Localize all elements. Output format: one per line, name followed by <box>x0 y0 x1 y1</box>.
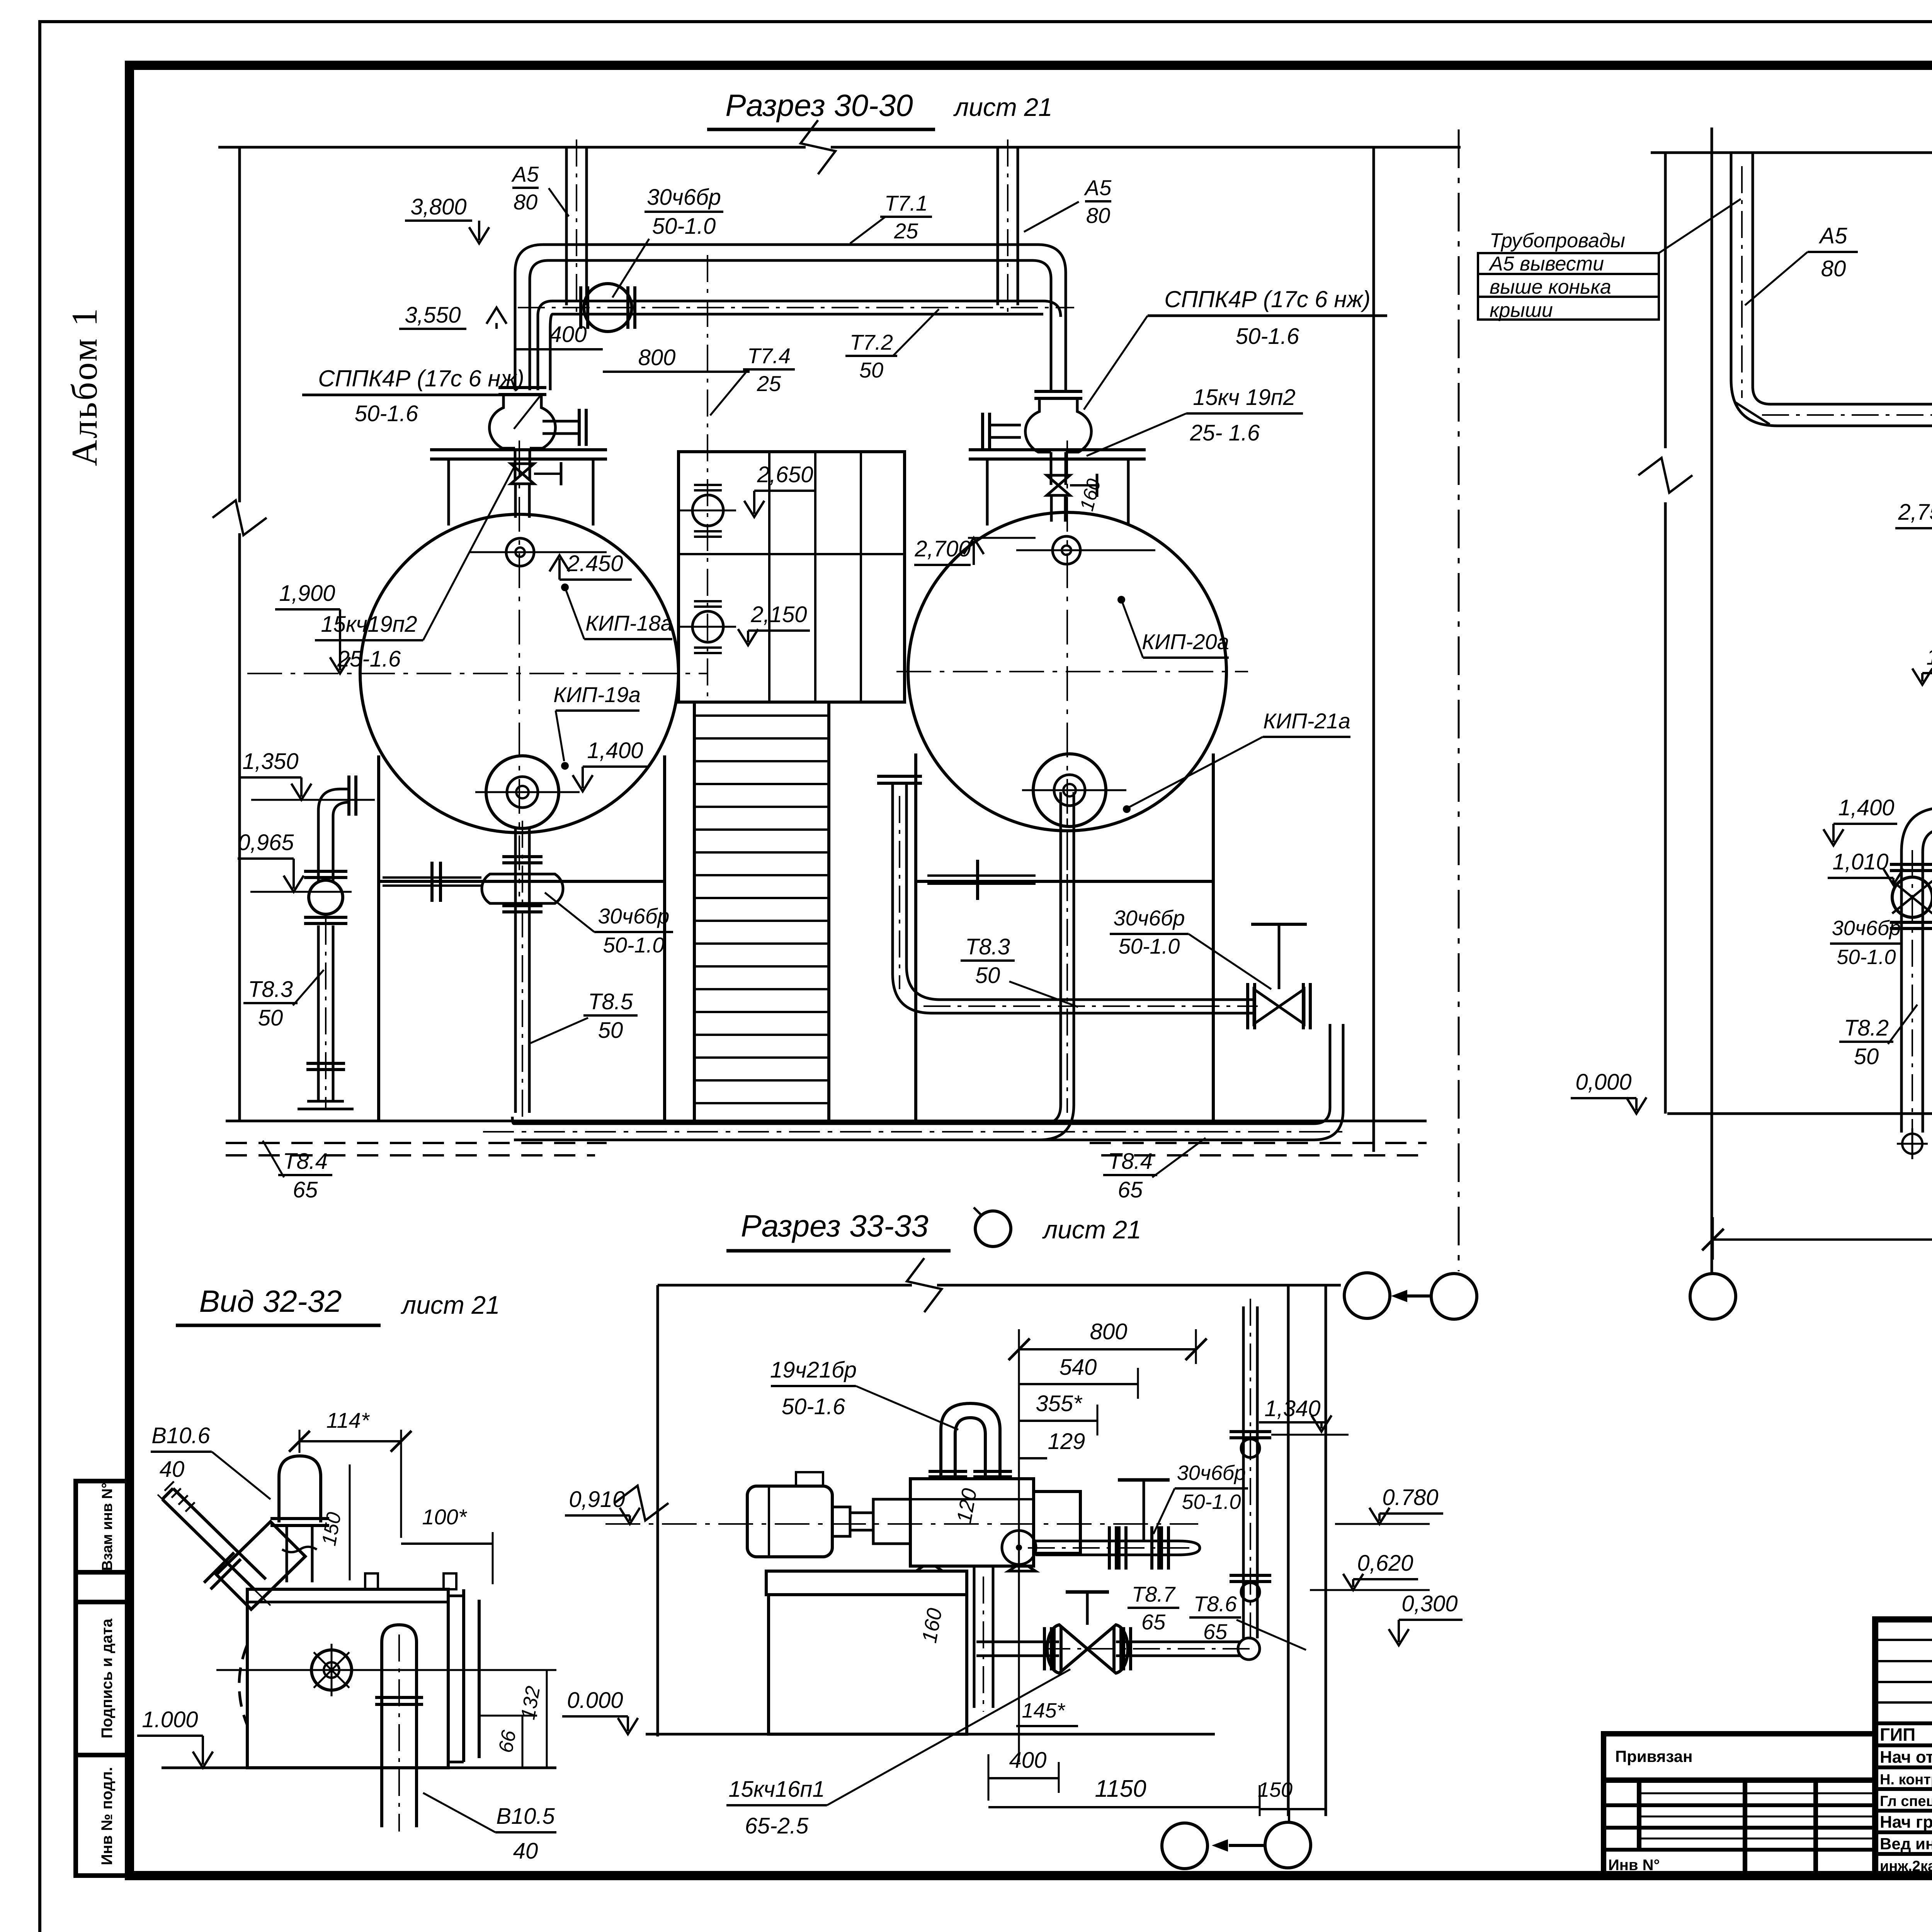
ground line view 32 <box>162 1767 556 1769</box>
casing left arc <box>239 1645 247 1725</box>
svg-text:1,010: 1,010 <box>1832 849 1888 874</box>
svg-text:25-1.6: 25-1.6 <box>337 646 401 672</box>
right tank center drain pipe <box>1060 792 1062 1105</box>
svg-text:Разрез 33-33: Разрез 33-33 <box>741 1209 928 1243</box>
left tank shell circle <box>360 514 679 833</box>
svg-text:1,350: 1,350 <box>242 749 298 774</box>
svg-text:19ч21бр: 19ч21бр <box>770 1357 857 1383</box>
air vent dome <box>279 1456 321 1522</box>
svg-text:Нач гр.: Нач гр. <box>1880 1813 1932 1832</box>
svg-text:инж.2кат: инж.2кат <box>1880 1858 1932 1874</box>
svg-text:80: 80 <box>514 190 537 214</box>
foundation block <box>769 1595 967 1734</box>
svg-text:30ч6бр: 30ч6бр <box>598 904 669 928</box>
axis circle pair below <box>1344 1273 1390 1318</box>
svg-text:Разрез 30-30: Разрез 30-30 <box>725 88 913 122</box>
svg-text:Т8.5: Т8.5 <box>588 989 633 1014</box>
svg-text:лист 21: лист 21 <box>400 1291 500 1319</box>
riser pipe A5 left <box>565 147 568 305</box>
svg-text:В10.5: В10.5 <box>496 1804 555 1829</box>
svg-text:80: 80 <box>1821 256 1846 281</box>
svg-text:2,700: 2,700 <box>914 536 971 561</box>
platform left tank <box>430 448 607 451</box>
svg-text:Т8.4: Т8.4 <box>283 1149 328 1174</box>
left boundary 33-33 <box>656 1285 659 1736</box>
pipe end cap <box>1178 1541 1200 1555</box>
ground line 0.000 31-31 <box>1667 1112 1932 1115</box>
svg-text:2,150: 2,150 <box>750 602 807 627</box>
svg-text:50-1.6: 50-1.6 <box>1236 324 1299 349</box>
wall line right of section 30-30 <box>1372 147 1375 1152</box>
svg-text:0,300: 0,300 <box>1401 1591 1458 1616</box>
svg-text:лист 21: лист 21 <box>1042 1215 1141 1244</box>
svg-text:Трубопровады: Трубопровады <box>1490 230 1625 252</box>
suction pipe to the right <box>1036 1540 1178 1543</box>
svg-text:А5: А5 <box>1819 223 1848 248</box>
level line 0.965 <box>250 891 352 893</box>
svg-text:30ч6бр: 30ч6бр <box>1177 1461 1246 1485</box>
svg-text:80: 80 <box>1086 203 1110 228</box>
svg-text:50: 50 <box>598 1018 623 1043</box>
svg-text:0,965: 0,965 <box>238 830 294 855</box>
globe valve 15кч16п1 <box>1047 1625 1128 1673</box>
drain horizontal pipe <box>976 1641 1059 1643</box>
right tank bottom manhole <box>1033 754 1106 827</box>
left tank drain pipe <box>514 828 517 1113</box>
horizontal mid line casing <box>216 1669 502 1671</box>
svg-text:1,900: 1,900 <box>1926 645 1932 670</box>
right wall lines 33-33 <box>1287 1285 1290 1816</box>
svg-text:СППК4Р (17с 6 нж): СППК4Р (17с 6 нж) <box>1164 286 1370 312</box>
pump discharge loop <box>941 1403 1000 1479</box>
svg-text:Т7.1: Т7.1 <box>884 191 928 215</box>
top line 33-33 <box>658 1284 912 1287</box>
axis to bottom circles <box>1288 1809 1290 1822</box>
pump motor <box>747 1486 832 1557</box>
riser pipe A5 right <box>997 147 999 305</box>
column axis left 31-31 <box>1711 128 1713 1273</box>
right tank support pedestal <box>914 753 917 1121</box>
svg-text:50-1.0: 50-1.0 <box>1837 946 1896 969</box>
svg-text:40: 40 <box>513 1838 538 1864</box>
pump feet <box>916 1566 943 1571</box>
left elbow pipe 31-31 bottom <box>1901 808 1932 1133</box>
section 31-31 left boundary line <box>1664 153 1667 448</box>
svg-text:2,650: 2,650 <box>757 462 813 487</box>
svg-text:65: 65 <box>1203 1619 1228 1644</box>
pump shaft center line <box>605 1523 1198 1525</box>
svg-text:Т7.4: Т7.4 <box>747 344 791 368</box>
svg-text:КИП-20а: КИП-20а <box>1142 629 1229 654</box>
svg-text:КИП-18а: КИП-18а <box>585 611 673 635</box>
ground 0.000 33-33 <box>646 1733 1215 1736</box>
svg-text:0,620: 0,620 <box>1357 1551 1413 1576</box>
svg-text:ГИП: ГИП <box>1880 1725 1915 1745</box>
svg-text:выше конька: выше конька <box>1490 276 1611 298</box>
side outlet flange right <box>989 424 1021 427</box>
svg-text:50-1.0: 50-1.0 <box>652 214 716 239</box>
svg-text:Альбом 1: Альбом 1 <box>65 307 105 466</box>
svg-text:1,400: 1,400 <box>587 738 643 763</box>
svg-text:0,910: 0,910 <box>569 1487 625 1512</box>
left tank support pedestal <box>377 755 380 1121</box>
valve 15кч19п2 right on tank nozzle <box>1047 475 1070 495</box>
ground hatch dashed <box>226 1142 607 1144</box>
svg-text:0.780: 0.780 <box>1382 1485 1438 1510</box>
svg-text:1,900: 1,900 <box>279 581 335 606</box>
pipe T7.1 at 3.800 rounded run <box>515 245 1066 390</box>
svg-text:КИП-21а: КИП-21а <box>1263 709 1350 733</box>
svg-text:50-1.6: 50-1.6 <box>782 1394 845 1419</box>
inclined valve body <box>216 1522 305 1609</box>
pump body <box>910 1479 1034 1566</box>
svg-text:50-1.6: 50-1.6 <box>355 401 418 426</box>
T7.4 pipe axis <box>707 255 708 699</box>
svg-text:Т7.2: Т7.2 <box>850 330 893 354</box>
svg-text:65: 65 <box>1141 1610 1166 1634</box>
safety valve СППК4Р right <box>1026 398 1051 452</box>
svg-text:Т8.3: Т8.3 <box>248 977 293 1002</box>
svg-text:30ч6бр: 30ч6бр <box>1832 917 1901 940</box>
svg-text:400: 400 <box>1009 1748 1047 1773</box>
right tank center lines <box>896 671 1248 672</box>
svg-text:СППК4Р (17с 6 нж): СППК4Р (17с 6 нж) <box>318 366 524 391</box>
left margin stamp column <box>76 1481 129 1876</box>
drain pipe down from pump <box>973 1566 976 1708</box>
svg-text:800: 800 <box>1090 1319 1128 1344</box>
svg-text:1150: 1150 <box>1095 1776 1146 1802</box>
svg-text:Вид 32-32: Вид 32-32 <box>199 1284 342 1318</box>
title block staff row lines <box>1875 1743 1932 1747</box>
left outer pipe elbow from tank nozzle <box>318 789 350 881</box>
svg-text:А5: А5 <box>511 162 539 186</box>
title block outer <box>1875 1619 1932 1876</box>
flange on inclined valve <box>204 1553 234 1583</box>
svg-text:15кч 19п2: 15кч 19п2 <box>1193 385 1295 410</box>
svg-text:2.450: 2.450 <box>566 551 623 576</box>
building top line section 30-30 <box>218 146 806 149</box>
left boundary line 30-30 <box>238 147 241 502</box>
top bolts <box>365 1573 378 1589</box>
svg-text:30ч6бр: 30ч6бр <box>1113 906 1185 930</box>
svg-text:Н. контр: Н. контр <box>1880 1772 1932 1788</box>
svg-text:30ч6бр: 30ч6бр <box>647 185 721 210</box>
level sensor 2.650 <box>692 495 723 526</box>
pump coupling <box>832 1507 850 1536</box>
vent pipe below dome <box>286 1526 288 1582</box>
svg-text:50: 50 <box>1854 1044 1879 1069</box>
svg-text:Т8.3: Т8.3 <box>965 934 1010 959</box>
base frame <box>766 1571 967 1595</box>
svg-text:800: 800 <box>638 345 676 370</box>
svg-text:65-2.5: 65-2.5 <box>745 1813 809 1838</box>
right tank drain valve side stem <box>927 874 1036 877</box>
svg-text:КИП-19а: КИП-19а <box>553 682 641 707</box>
left tank drain valve side stem <box>383 876 481 879</box>
valve on left outer pipe <box>304 870 347 873</box>
valve on left drain 31-31 <box>1890 863 1932 866</box>
svg-text:Т8.2: Т8.2 <box>1844 1015 1889 1041</box>
right tank shell circle <box>908 512 1226 831</box>
title block thin top rows <box>1875 1639 1932 1641</box>
side outlet flange left <box>543 420 580 423</box>
svg-text:50-1.0: 50-1.0 <box>1119 934 1180 958</box>
svg-text:Т8.6: Т8.6 <box>1194 1592 1237 1616</box>
suction elbow circle at pump <box>1002 1531 1036 1565</box>
pump casing view 32-32 <box>247 1589 448 1768</box>
svg-text:1.000: 1.000 <box>142 1707 198 1732</box>
valve 15кч19п2 left on tank nozzle <box>511 464 534 484</box>
svg-text:Т8.4: Т8.4 <box>1108 1149 1153 1174</box>
right tank side pipe with elbow <box>893 784 1254 1013</box>
bottom circle pair 33-33 <box>1162 1823 1207 1869</box>
svg-text:100*: 100* <box>422 1505 467 1529</box>
svg-text:25: 25 <box>894 219 918 243</box>
svg-text:0.000: 0.000 <box>567 1688 623 1713</box>
svg-text:400: 400 <box>549 322 587 347</box>
safety valve СППК4Р left <box>490 394 515 448</box>
svg-text:65: 65 <box>293 1177 318 1202</box>
building top line 31-31 <box>1651 151 1932 154</box>
svg-text:150: 150 <box>1258 1778 1293 1801</box>
left tank bottom manhole <box>486 756 559 828</box>
svg-text:540: 540 <box>1060 1355 1097 1380</box>
ground line 30-30 <box>226 1120 1427 1122</box>
svg-text:50: 50 <box>258 1005 283 1031</box>
svg-text:В10.6: В10.6 <box>151 1423 210 1448</box>
svg-text:Инв № подл.: Инв № подл. <box>99 1767 116 1865</box>
dim 4000 <box>1713 1238 1932 1241</box>
underground main pipe run <box>514 1122 1314 1125</box>
pipe end circles at ground <box>1902 1134 1922 1154</box>
svg-text:66: 66 <box>495 1728 520 1754</box>
svg-text:3,800: 3,800 <box>410 194 466 219</box>
inclined pipe stub <box>162 1499 255 1590</box>
right vertical pipe 33-33 <box>1242 1306 1245 1638</box>
svg-text:40: 40 <box>160 1457 185 1482</box>
svg-text:Гл спец: Гл спец <box>1880 1793 1932 1810</box>
gate valve on suction pipe <box>1150 1526 1153 1570</box>
svg-text:50-1.0: 50-1.0 <box>1182 1490 1241 1514</box>
annex table Привязан <box>1604 1734 1875 1876</box>
svg-text:А5: А5 <box>1084 175 1112 200</box>
svg-text:50: 50 <box>975 963 1000 988</box>
left outer pipe foot <box>307 1100 344 1103</box>
platform right tank <box>969 448 1146 451</box>
column axis between sections <box>1458 129 1460 1271</box>
svg-text:2,750: 2,750 <box>1898 500 1932 525</box>
svg-text:114*: 114* <box>326 1408 370 1432</box>
svg-text:50: 50 <box>859 358 883 382</box>
svg-text:Нач отд: Нач отд <box>1880 1748 1932 1767</box>
svg-text:50-1.0: 50-1.0 <box>603 933 665 957</box>
valve 30ч6бр on 3.550 run <box>584 284 632 332</box>
svg-text:Привязан: Привязан <box>1615 1747 1692 1765</box>
svg-text:25: 25 <box>757 371 781 396</box>
svg-text:355*: 355* <box>1036 1391 1083 1416</box>
svg-text:Инв N°: Инв N° <box>1608 1857 1660 1874</box>
left tank center lines <box>247 673 707 674</box>
pipe A5 down elbow in 31-31 <box>1731 153 1932 426</box>
sensor nozzle right tank top <box>1053 536 1080 564</box>
svg-text:Взам инв N°: Взам инв N° <box>99 1483 116 1571</box>
svg-text:Подпись и дата: Подпись и дата <box>99 1618 116 1738</box>
svg-text:65: 65 <box>1118 1177 1143 1202</box>
svg-text:0,000: 0,000 <box>1575 1070 1631 1095</box>
svg-text:крыши: крыши <box>1490 299 1553 321</box>
svg-text:145*: 145* <box>1022 1699 1065 1722</box>
instrument grid box between tanks <box>679 452 905 702</box>
elbow circle at right end of drain <box>1238 1638 1260 1660</box>
sensor nozzle left tank top <box>506 538 534 566</box>
drain valve left tank <box>482 874 563 903</box>
stairs between tanks <box>693 702 696 1121</box>
left outer pipe down <box>317 925 320 1101</box>
discharge pipe over casing <box>382 1625 417 1642</box>
valve 30ч6бр right bottom <box>1278 924 1281 989</box>
svg-text:129: 129 <box>1048 1429 1085 1454</box>
svg-text:Вед инж: Вед инж <box>1880 1835 1932 1853</box>
svg-text:1,400: 1,400 <box>1838 795 1894 820</box>
svg-text:лист 21: лист 21 <box>953 93 1053 121</box>
svg-text:А5 вывести: А5 вывести <box>1488 253 1604 275</box>
svg-text:3,550: 3,550 <box>405 303 461 328</box>
svg-text:15кч16п1: 15кч16п1 <box>728 1777 825 1802</box>
level line 1.350 <box>251 799 375 801</box>
svg-text:25- 1.6: 25- 1.6 <box>1190 420 1260 446</box>
axis circle left 31-31 <box>1690 1274 1736 1319</box>
level sensor 2.150 <box>692 611 723 642</box>
pipe T7.2 at 3.550 <box>553 300 1043 303</box>
svg-text:Т8.7: Т8.7 <box>1132 1582 1176 1606</box>
casing center boss <box>311 1650 352 1690</box>
